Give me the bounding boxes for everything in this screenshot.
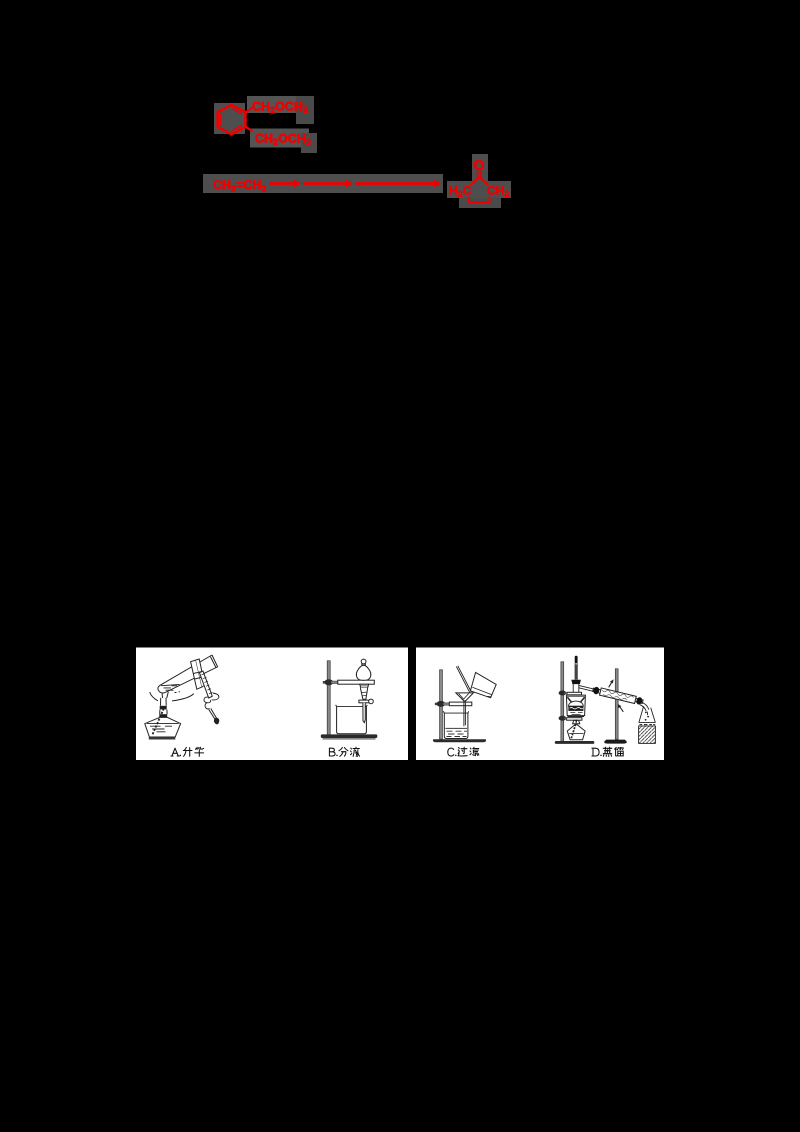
flame right curve bbox=[172, 694, 194, 701]
lamp cap bbox=[573, 720, 580, 723]
condenser bbox=[592, 686, 643, 705]
clamp bolt bbox=[323, 681, 327, 684]
clamp knuckle bbox=[324, 679, 333, 685]
second stand pole bbox=[615, 669, 618, 739]
second stand base bbox=[604, 740, 627, 744]
hatched liquid body bbox=[639, 726, 656, 743]
pole ring lower bbox=[559, 716, 567, 721]
svg-text:CH2OCH3: CH2OCH3 bbox=[252, 100, 308, 116]
spring loop big bbox=[212, 693, 219, 700]
tail tip blob bbox=[214, 718, 218, 724]
clamp jaw strip rear bbox=[196, 659, 205, 687]
stand pole bbox=[327, 661, 330, 735]
erlenmeyer flask bbox=[639, 706, 655, 722]
product ring closure bbox=[469, 197, 490, 203]
inner flask dome bbox=[568, 701, 583, 706]
clamp tail bbox=[209, 709, 217, 720]
liquid in pouring beaker bbox=[472, 687, 492, 696]
stand pole bbox=[440, 670, 443, 739]
lamp wick holder white bbox=[161, 698, 167, 706]
wick diagonal bbox=[153, 709, 164, 735]
char fen bbox=[339, 748, 348, 757]
clamp arm gray bbox=[331, 681, 339, 683]
thermometer tube bbox=[575, 663, 577, 680]
condenser stopper left bbox=[593, 686, 600, 695]
jpeg gray halo bottom text bbox=[250, 129, 309, 148]
jpeg gray band reaction row bbox=[203, 174, 443, 193]
funnel joint bbox=[360, 684, 369, 687]
spring squiggle bbox=[204, 697, 211, 703]
liquid in tube bbox=[161, 685, 180, 686]
clamp bolt bbox=[435, 703, 439, 706]
thermometer cap bbox=[575, 656, 578, 664]
beaker bbox=[336, 705, 368, 734]
flask neck bbox=[573, 684, 579, 692]
filtrate dashes bbox=[447, 731, 468, 736]
lamp body bbox=[567, 724, 585, 740]
condensate drops bbox=[645, 712, 647, 714]
char sheng bbox=[183, 747, 192, 756]
reaction arrow 2 bbox=[303, 182, 347, 185]
side arm to condenser bbox=[579, 685, 596, 691]
funnel pear body bbox=[356, 665, 371, 680]
label A. bbox=[171, 748, 181, 756]
product branch bonds bbox=[471, 177, 480, 185]
jpeg gray halo top text bbox=[247, 96, 302, 113]
iron ring bar bbox=[338, 680, 375, 684]
char ye bbox=[350, 747, 359, 756]
pouring beaker tilted bbox=[470, 672, 496, 697]
label D. bbox=[592, 748, 602, 756]
lamp collar band 1 bbox=[160, 706, 167, 710]
stand base bbox=[433, 739, 486, 742]
char zheng bbox=[603, 747, 612, 756]
iron ring bar bbox=[449, 702, 472, 706]
condenser stopper right bbox=[636, 697, 643, 706]
jpeg gray halo around hexagon bbox=[214, 103, 245, 134]
stopper bbox=[571, 680, 581, 684]
svg-text:O: O bbox=[473, 157, 484, 173]
benzene ring bbox=[218, 105, 246, 135]
filtrate level bbox=[445, 727, 467, 729]
lamp wick diagonal bbox=[571, 724, 575, 738]
lamp collar cylinder bbox=[160, 710, 167, 715]
char guo bbox=[458, 747, 467, 756]
svg-text:CH2OCH3: CH2OCH3 bbox=[255, 132, 311, 148]
test tube tilted bbox=[158, 655, 218, 693]
filter paper bbox=[459, 694, 469, 700]
product C=O double bond bbox=[477, 171, 479, 179]
benzene inner double bonds bbox=[221, 109, 243, 131]
stand base bbox=[321, 734, 378, 738]
char lv bbox=[470, 747, 479, 755]
water arrow upper bbox=[609, 681, 613, 687]
pole ring upper bbox=[559, 691, 567, 696]
stopcock bbox=[359, 700, 370, 703]
lamp body bbox=[145, 717, 181, 737]
liquid surface bbox=[639, 722, 656, 724]
test tube mouth rim bbox=[210, 657, 216, 668]
clamp arm gray bbox=[443, 703, 450, 705]
lamp collar band 2 bbox=[159, 714, 167, 717]
alcohol level line bbox=[147, 722, 179, 724]
lamp base strip bbox=[149, 737, 176, 739]
left stand base bbox=[555, 741, 595, 744]
receiving beaker bbox=[443, 711, 468, 738]
tube neck into flame bbox=[162, 692, 168, 698]
clamp pivot lines bbox=[194, 671, 205, 679]
funnel stopper knob bbox=[361, 659, 366, 664]
left stand pole bbox=[561, 662, 564, 741]
glass rod bbox=[456, 666, 471, 693]
bent adapter bbox=[640, 702, 649, 715]
jpeg gray halo product bbox=[472, 154, 488, 185]
clamp jaw strip bbox=[191, 660, 202, 689]
clamp handle hatched bbox=[199, 671, 212, 698]
boiling liquid dark band bbox=[568, 706, 583, 711]
reaction arrow 1 bbox=[270, 182, 295, 185]
dashes under band bbox=[570, 713, 582, 715]
funnel cone bbox=[456, 693, 474, 701]
funnel cone bbox=[360, 688, 367, 700]
flame left curve bbox=[150, 692, 158, 701]
svg-text:CH2=CH2: CH2=CH2 bbox=[213, 178, 266, 194]
white panel left bbox=[136, 648, 408, 761]
bond to bottom CH2OCH3 bbox=[246, 127, 253, 132]
funnel stem bbox=[464, 701, 466, 726]
char liu bbox=[615, 747, 624, 756]
clamp knuckle bbox=[437, 701, 446, 707]
condenser clamp tick bbox=[614, 693, 620, 695]
stem tube bbox=[363, 703, 365, 723]
water bath vessel bbox=[566, 695, 585, 716]
upper iron ring bbox=[567, 692, 582, 695]
label C. bbox=[448, 748, 457, 756]
alcohol dashes bbox=[150, 726, 172, 732]
bond to top CH2OCH3 bbox=[246, 108, 253, 113]
vessel corner wedges bbox=[567, 697, 584, 702]
crystal specks bbox=[175, 691, 181, 694]
reaction arrow 3 bbox=[355, 182, 435, 185]
char hua bbox=[195, 747, 204, 756]
lower iron ring bbox=[568, 716, 585, 718]
water arrow lower bbox=[619, 706, 623, 712]
white panel right bbox=[416, 648, 664, 761]
label B. bbox=[329, 748, 337, 756]
